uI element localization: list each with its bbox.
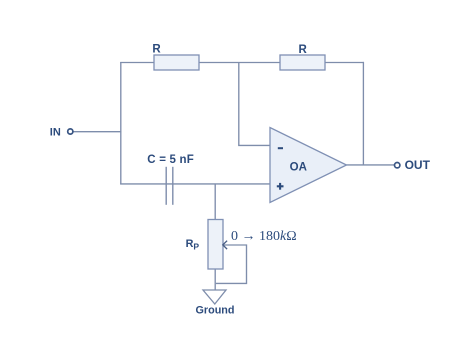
- wire capacitor row to non-inverting input: [120, 183, 270, 185]
- wire between R1 and R2: [199, 62, 280, 64]
- wire top left segment: [120, 62, 154, 64]
- svg-text:OUT: OUT: [405, 158, 431, 172]
- svg-text:0 → 180kΩ: 0 → 180kΩ: [231, 229, 297, 244]
- wire left rail: [120, 62, 122, 184]
- svg-text:OA: OA: [290, 162, 307, 174]
- svg-text:Ground: Ground: [196, 305, 235, 317]
- wire right rail: [362, 62, 364, 165]
- wire pot bottom lead to ground: [214, 269, 216, 290]
- wire pot top lead: [214, 184, 216, 220]
- wire wiper return: [216, 245, 247, 283]
- capacitor C plates: [166, 167, 173, 205]
- wire after R2 to right corner: [325, 62, 364, 64]
- resistor R1: [154, 55, 199, 70]
- svg-text:C = 5 nF: C = 5 nF: [147, 154, 194, 166]
- node OUT terminal: [395, 163, 400, 168]
- svg-text:R: R: [299, 44, 308, 56]
- wire IN lead: [74, 131, 122, 133]
- svg-text:RP: RP: [186, 238, 200, 252]
- op-amp OA: [270, 128, 347, 203]
- resistor R2: [280, 55, 325, 70]
- svg-text:IN: IN: [50, 127, 61, 139]
- wire junction drop to inverting input: [239, 63, 270, 146]
- potentiometer RP wiper arrowhead: [223, 241, 227, 249]
- svg-text:R: R: [152, 43, 161, 55]
- ground: [203, 290, 226, 304]
- pin minus (inverting input): [278, 147, 283, 149]
- potentiometer RP body: [208, 220, 223, 270]
- wire output lead: [347, 164, 395, 166]
- node IN terminal: [68, 129, 73, 134]
- pin plus (non-inverting input): [277, 183, 284, 190]
